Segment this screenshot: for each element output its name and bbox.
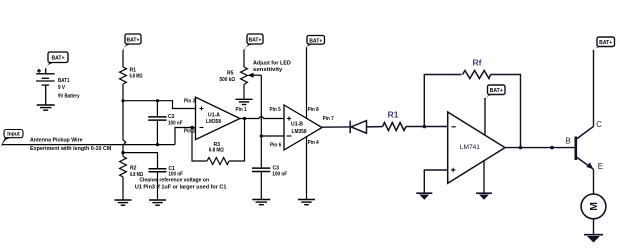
svg-text:Pin 1: Pin 1 (236, 107, 247, 113)
op-amp U1-A (196, 97, 241, 139)
node: Rf tap (423, 125, 427, 129)
svg-text:LM358: LM358 (206, 119, 221, 125)
ground (LM741 V-) (476, 193, 492, 200)
svg-text:9V Battery: 9V Battery (58, 93, 80, 99)
capacitor C1 (149, 169, 167, 200)
ground (C3) (252, 200, 270, 205)
svg-text:BAT1: BAT1 (58, 78, 70, 84)
svg-text:U1-B: U1-B (291, 122, 303, 128)
power flag BAT+ (R1) (123, 34, 141, 50)
R2 labels (130, 166, 143, 178)
wire antenna to pin2 (175, 128, 196, 145)
R5 labels (220, 61, 291, 83)
svg-text:Antenna Pickup Wire: Antenna Pickup Wire (30, 138, 83, 144)
wire pin8 stub (306, 48, 308, 119)
node: base wire (550, 146, 554, 150)
svg-text:BAT+: BAT+ (490, 88, 503, 94)
wire rail with hop over antenna wire (123, 101, 126, 157)
node: Rf joins output (519, 146, 523, 150)
svg-text:M: M (588, 202, 600, 211)
svg-text:Input: Input (7, 132, 20, 138)
ground (R5) (236, 99, 253, 104)
wire pin4 stub (306, 137, 308, 199)
R1 labels (130, 67, 143, 79)
ground (C1) (149, 200, 166, 205)
wire R5 wiper to pin6 with hop over pin5 wire (260, 75, 262, 136)
svg-text:R1: R1 (130, 67, 137, 73)
svg-text:E: E (598, 162, 603, 171)
svg-text:9 V: 9 V (58, 85, 66, 91)
svg-text:Pin 4: Pin 4 (308, 140, 319, 146)
wire R1 to inverting input (406, 126, 448, 128)
capacitor C3 (252, 136, 270, 199)
battery labels (58, 78, 80, 100)
wire motor to ground (593, 219, 595, 234)
svg-text:Pin 8: Pin 8 (308, 107, 319, 113)
potentiometer R5 (241, 50, 262, 99)
note text (135, 178, 227, 191)
svg-text:500 kΩ: 500 kΩ (220, 77, 236, 83)
svg-text:LM358: LM358 (292, 129, 307, 135)
B C E labels (566, 120, 604, 171)
wire pin6 (261, 135, 284, 137)
R3 labels (209, 142, 224, 154)
svg-text:Rf: Rf (472, 58, 481, 68)
C2 labels (168, 114, 183, 126)
svg-text:BAT+: BAT+ (309, 38, 322, 44)
node: R3 tap on pin2 wire (190, 126, 193, 129)
svg-text:C3: C3 (273, 165, 280, 171)
wire C1 stub (123, 153, 158, 169)
node: wiper joins pin6 net (260, 134, 263, 137)
svg-text:BAT+: BAT+ (599, 40, 612, 46)
svg-text:6.8 MΩ: 6.8 MΩ (209, 148, 224, 154)
U1-A pin labels (184, 98, 247, 134)
wire R3 feedback loop (192, 119, 245, 162)
wire pin3 net (123, 101, 196, 109)
ground (battery) (37, 105, 55, 110)
node: C2 top tap (156, 99, 159, 102)
wire Rf loop right (491, 75, 521, 148)
node: divider junction (121, 99, 124, 102)
node: C2 bottom on antenna wire (156, 143, 159, 146)
U1-B pin labels (270, 107, 334, 149)
svg-text:BAT+: BAT+ (51, 56, 64, 62)
svg-text:Pin 2: Pin 2 (184, 129, 195, 135)
svg-text:Experiment with length 0-10 CM: Experiment with length 0-10 CM (30, 146, 112, 152)
wire pin7 output (322, 126, 350, 128)
svg-text:Adjust for LED: Adjust for LED (253, 61, 291, 67)
wire emitter to motor (592, 169, 595, 194)
resistor R2 (120, 157, 127, 200)
ground (R2) (115, 200, 132, 205)
svg-text:R1: R1 (387, 110, 398, 120)
svg-text:Pin 3: Pin 3 (184, 98, 195, 104)
wire antenna net (2, 144, 175, 146)
power flag BAT+ (collector) (592, 37, 614, 51)
antenna annotations (30, 138, 112, 152)
node: feedback joins output (243, 117, 246, 120)
resistor R1 (comparator input) (383, 123, 407, 131)
svg-text:B: B (566, 137, 571, 146)
resistor R3 (207, 158, 229, 165)
input flag Input (1, 130, 23, 147)
node: C1 branch junction (121, 151, 124, 154)
motor M1 (581, 194, 606, 219)
svg-text:LM741: LM741 (460, 144, 480, 151)
svg-text:Pin 5: Pin 5 (270, 107, 281, 113)
capacitor C2 (148, 101, 166, 145)
battery BAT1 (36, 69, 55, 105)
svg-text:100 nF: 100 nF (168, 121, 183, 127)
emitter arrow (586, 162, 593, 169)
ground (LM741 + input) (416, 193, 432, 200)
wire output (505, 147, 576, 149)
wire U1-A output to U1-B pin5 with hop (240, 117, 284, 119)
diode D1 (350, 121, 382, 134)
wire V+ stub (484, 98, 486, 135)
wire V- stub (483, 161, 485, 193)
power flag BAT+ (U1-B pin8) (305, 36, 324, 49)
resistor R1 (120, 50, 127, 101)
ground (motor) (584, 235, 603, 243)
svg-text:U1-A: U1-A (208, 113, 220, 119)
C1 labels (168, 166, 183, 178)
C3 labels (272, 165, 287, 177)
transistor Q1 (576, 126, 594, 168)
svg-text:U1 Pin3 if 1uF or larger used: U1 Pin3 if 1uF or larger used for C1 (135, 184, 227, 190)
svg-text:BAT+: BAT+ (126, 38, 139, 44)
svg-text:Pin 6: Pin 6 (270, 143, 281, 149)
power flag BAT+ (R5) (244, 34, 263, 50)
svg-text:C2: C2 (168, 114, 175, 120)
svg-text:R2: R2 (130, 166, 137, 172)
power flag BAT+ (LM741) (484, 85, 505, 100)
svg-text:100 nF: 100 nF (272, 172, 287, 178)
power flag BAT+ (battery) (45, 52, 68, 69)
wire collector to BAT+ (593, 50, 595, 126)
wire + input to ground (424, 170, 447, 193)
ground (U1-B pin4) (298, 200, 315, 205)
op-amp U1-B (284, 105, 322, 150)
resistor Rf (463, 71, 491, 79)
svg-text:BAT+: BAT+ (248, 38, 261, 44)
wire Rf loop left (424, 75, 461, 127)
svg-text:6.8 MΩ: 6.8 MΩ (130, 74, 143, 80)
svg-text:C: C (596, 120, 602, 129)
op-amp U2 LM741 (448, 112, 505, 183)
svg-text:R5: R5 (227, 71, 234, 77)
svg-text:Cleaner reference voltage on: Cleaner reference voltage on (139, 178, 209, 184)
svg-text:Pin 7: Pin 7 (323, 116, 334, 122)
svg-text:sensitivity: sensitivity (253, 67, 283, 73)
R5 wiper arrow (248, 73, 254, 78)
